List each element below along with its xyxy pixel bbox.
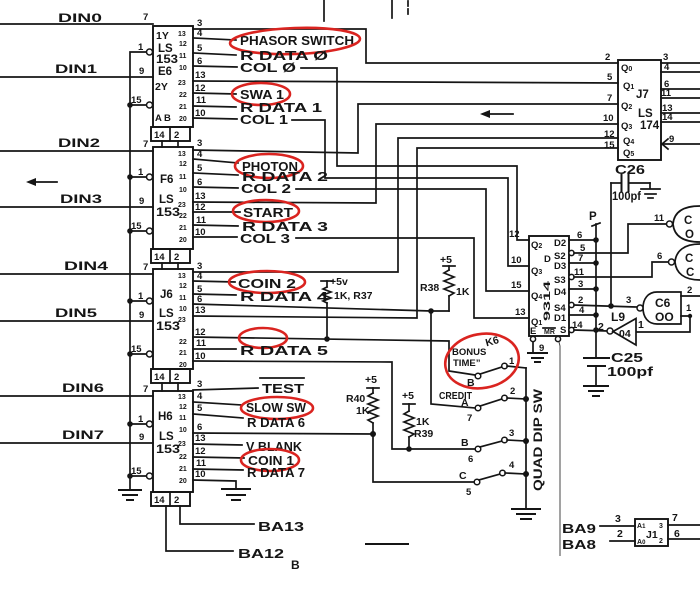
svg-text:13: 13 — [178, 31, 186, 38]
svg-text:1K: 1K — [356, 405, 370, 417]
wire BA9 to J1 pin3 — [600, 513, 635, 526]
wire DIN5 — [0, 306, 153, 321]
svg-text:9: 9 — [139, 196, 144, 207]
svg-text:A0: A0 — [637, 539, 646, 546]
wire F6 pin10 COL 3 — [193, 227, 529, 318]
svg-text:A: A — [155, 113, 162, 124]
wire BA8 to J1 pin2 — [610, 528, 635, 541]
svg-text:20: 20 — [179, 237, 187, 244]
resistor R39 1K — [402, 390, 433, 449]
svg-text:7: 7 — [607, 93, 612, 104]
svg-text:R40: R40 — [346, 393, 365, 405]
svg-text:1: 1 — [138, 414, 144, 425]
wire J6 pin6 to R38 junction — [193, 294, 449, 311]
svg-text:1: 1 — [138, 167, 144, 178]
svg-text:BA9: BA9 — [562, 522, 596, 536]
svg-text:20: 20 — [179, 362, 187, 369]
wire DIN2 — [0, 136, 153, 151]
svg-text:3: 3 — [659, 523, 663, 530]
svg-text:15: 15 — [131, 344, 142, 355]
wire 9314 pin5 S2 to nand pin11 — [569, 224, 666, 256]
svg-text:C6: C6 — [655, 296, 671, 310]
wire J7 pin14 — [661, 121, 700, 123]
svg-text:12: 12 — [179, 404, 187, 411]
svg-text:11: 11 — [179, 295, 187, 302]
svg-text:F6: F6 — [160, 174, 173, 186]
svg-text:R DATA 5: R DATA 5 — [240, 344, 328, 358]
wire strobe rail — [130, 52, 147, 489]
wire 9314 pin4 D1 — [569, 314, 596, 316]
wire E6 pin13 to J7 pin5 — [193, 70, 618, 83]
svg-text:14: 14 — [154, 252, 165, 263]
ground (left rail) — [119, 490, 141, 500]
ground (C25) — [584, 386, 608, 396]
svg-text:3: 3 — [509, 428, 514, 439]
svg-text:B: B — [164, 113, 171, 124]
svg-text:TIME”: TIME” — [453, 358, 481, 369]
wire 9314 pin6 D2 — [569, 239, 596, 241]
svg-text:13: 13 — [178, 394, 186, 401]
svg-text:21: 21 — [179, 466, 187, 473]
wire J6 pin4 COIN 2 — [193, 271, 296, 291]
svg-text:S: S — [560, 325, 566, 336]
ground (9314) — [528, 353, 547, 362]
svg-text:23: 23 — [178, 202, 186, 209]
svg-text:B: B — [291, 558, 300, 572]
pin tab E6 (14,2) — [151, 127, 190, 147]
resistor R37 1K — [321, 276, 373, 339]
svg-text:BA8: BA8 — [562, 538, 596, 552]
svg-text:SLOW SW: SLOW SW — [246, 401, 306, 415]
svg-text:9: 9 — [139, 432, 144, 443]
svg-text:D3: D3 — [554, 261, 566, 272]
wire C6 pin1 from L9 — [637, 303, 692, 332]
svg-text:DIN6: DIN6 — [62, 381, 104, 395]
wire DIN0 — [0, 11, 153, 25]
svg-text:PHASOR SWITCH: PHASOR SWITCH — [240, 34, 354, 48]
svg-text:10: 10 — [179, 427, 187, 434]
svg-text:DIN7: DIN7 — [62, 428, 104, 442]
svg-text:LS: LS — [638, 108, 653, 120]
nand gate (pin 11) top right — [654, 206, 700, 242]
svg-text:C: C — [684, 215, 692, 227]
wire E6 pin12 SWA 1 — [193, 83, 284, 102]
wire J7 pin4 — [661, 71, 700, 73]
wire J6 pin13 to J7 pin15 — [193, 148, 618, 318]
svg-text:21: 21 — [179, 225, 187, 232]
svg-text:6: 6 — [468, 454, 473, 465]
wire 9314 pin11 S3 to nand pin6 — [569, 262, 668, 280]
annotation ellipse COIN 2 — [229, 271, 305, 293]
svg-text:12: 12 — [604, 129, 615, 140]
svg-text:21: 21 — [179, 104, 187, 111]
dip switch C — [459, 460, 526, 498]
svg-text:2: 2 — [659, 538, 663, 545]
svg-text:100pf: 100pf — [607, 365, 654, 379]
svg-text:22: 22 — [179, 454, 187, 461]
svg-text:15: 15 — [131, 466, 142, 477]
svg-text:1: 1 — [138, 291, 144, 302]
svg-text:+5: +5 — [365, 374, 377, 386]
svg-text:2: 2 — [174, 252, 179, 263]
svg-text:OO: OO — [655, 310, 674, 324]
svg-text:MR: MR — [544, 329, 555, 336]
svg-text:R38: R38 — [420, 282, 439, 294]
svg-text:10: 10 — [195, 469, 206, 480]
wire J7 pin6 — [661, 88, 700, 90]
annotation ellipse COIN 1 — [241, 449, 299, 471]
svg-text:11: 11 — [196, 458, 207, 469]
wire J1 out pin6 — [668, 528, 700, 540]
svg-text:23: 23 — [178, 317, 186, 324]
svg-text:COL Ø: COL Ø — [240, 61, 296, 75]
inverter L9 7404 — [598, 310, 644, 345]
svg-text:3: 3 — [615, 513, 621, 525]
svg-text:R DATA 4: R DATA 4 — [240, 290, 328, 304]
wire H6 pin3 TEST — [193, 378, 304, 396]
svg-text:2: 2 — [174, 372, 179, 383]
pin tab J6 (14,2) — [151, 369, 190, 391]
svg-text:1: 1 — [686, 303, 692, 314]
ground (dip bus) — [512, 509, 540, 519]
wire C6 pin2 — [681, 285, 700, 296]
svg-text:100pf: 100pf — [612, 191, 641, 203]
svg-text:9: 9 — [139, 66, 144, 77]
svg-text:BONUS: BONUS — [452, 347, 486, 358]
svg-text:E: E — [530, 326, 536, 337]
svg-text:C: C — [459, 470, 467, 482]
wire dip switch bus — [523, 368, 529, 508]
svg-text:DIN5: DIN5 — [55, 306, 97, 320]
switch K6 bonus time — [452, 334, 526, 389]
svg-text:14: 14 — [154, 130, 165, 141]
wire H6 pin6 to R40 junction and dip switch C — [193, 422, 474, 482]
wire F6 pin13 to J7 pin10 — [193, 124, 618, 203]
svg-text:1K: 1K — [456, 286, 470, 298]
wire DIN6 — [0, 381, 153, 396]
annotation ellipse SLOW SW — [241, 397, 313, 419]
ground (C26) — [641, 189, 660, 198]
svg-text:2: 2 — [605, 52, 610, 63]
svg-text:153: 153 — [156, 207, 180, 219]
svg-text:7: 7 — [143, 384, 148, 395]
svg-text:14: 14 — [154, 372, 165, 383]
svg-text:23: 23 — [178, 441, 186, 448]
net P pull-up rail — [589, 211, 600, 358]
wire H6 pin12 COIN 1 — [193, 446, 294, 468]
svg-text:+5: +5 — [440, 254, 452, 266]
svg-text:15: 15 — [131, 95, 142, 106]
svg-text:R DATA 7: R DATA 7 — [247, 466, 305, 480]
dip switch A — [461, 386, 526, 424]
wire J6 pin11 R DATA 5 — [193, 338, 328, 358]
9314 bottom pin E to ground — [530, 336, 544, 354]
svg-text:A1: A1 — [637, 523, 646, 530]
svg-text:D: D — [544, 254, 551, 265]
wire F6 pin12 START — [193, 202, 293, 220]
svg-text:12: 12 — [509, 229, 520, 240]
svg-text:DIN3: DIN3 — [60, 192, 102, 206]
wire F6 pin6 COL 2 — [193, 177, 529, 291]
svg-text:J7: J7 — [636, 89, 649, 101]
9314 bottom pin S wire down — [555, 336, 560, 556]
svg-text:12: 12 — [179, 161, 187, 168]
svg-text:11: 11 — [196, 338, 207, 349]
svg-text:2: 2 — [510, 386, 515, 397]
svg-text:23: 23 — [178, 80, 186, 87]
svg-text:15: 15 — [604, 140, 615, 151]
svg-text:13: 13 — [178, 273, 186, 280]
svg-text:L9: L9 — [611, 310, 625, 324]
IC J1 — [635, 519, 668, 546]
tick mark top 1 — [323, 0, 325, 21]
svg-text:1Y: 1Y — [156, 30, 169, 42]
wire J7 pin13 — [661, 112, 700, 114]
wire J6 pin10 to dip switch B — [193, 351, 475, 449]
svg-text:3: 3 — [626, 295, 631, 306]
svg-text:1K: 1K — [416, 416, 430, 428]
wire F6 pin11 R DATA 3 — [193, 215, 328, 234]
wire E6 pin3 to J7 pin2 — [193, 18, 618, 63]
wire E6 pin5 R DATA 0 — [193, 43, 328, 63]
svg-text:LS: LS — [159, 431, 174, 443]
svg-text:2: 2 — [687, 285, 692, 296]
IC 9314 latch — [509, 229, 586, 337]
tick mark top 3 — [407, 1, 409, 16]
svg-text:22: 22 — [179, 339, 187, 346]
svg-text:04: 04 — [619, 328, 631, 340]
svg-text:10: 10 — [179, 65, 187, 72]
svg-text:5: 5 — [197, 403, 203, 414]
svg-text:C: C — [685, 253, 693, 265]
wire E6 pin10 COL 1 — [193, 108, 529, 266]
svg-text:COIN 2: COIN 2 — [238, 277, 296, 291]
wire H6 pin11 R DATA 7 — [193, 458, 305, 480]
wire E6 pin4 PHASOR SWITCH — [193, 28, 354, 48]
svg-text:TEST: TEST — [262, 382, 304, 396]
wire J6 pin3 to J7 pin12 — [193, 138, 618, 272]
wire DIN1 — [0, 62, 153, 77]
svg-text:QUAD DIP SW: QUAD DIP SW — [531, 388, 545, 491]
junction dots on strobe rail — [127, 102, 133, 479]
nand gate C6 7400 — [626, 292, 681, 324]
wire 9314 pin14 S1 to inverter L9 — [569, 327, 607, 332]
svg-text:13: 13 — [178, 151, 186, 158]
wire H6 pin4 SLOW SW — [193, 391, 306, 415]
svg-text:4: 4 — [197, 28, 203, 39]
svg-text:5: 5 — [607, 72, 613, 83]
svg-text:1: 1 — [138, 42, 144, 53]
svg-text:H6: H6 — [158, 411, 173, 423]
svg-text:13: 13 — [515, 307, 526, 318]
wire R38 junction to dip switch A — [431, 311, 475, 408]
svg-text:14: 14 — [154, 495, 165, 506]
svg-text:9314: 9314 — [542, 280, 553, 321]
arrow middle — [480, 110, 513, 118]
wire J6 pin12 to bonus-time switch — [193, 327, 475, 375]
wire J1 out pin7 — [668, 512, 700, 525]
stray mark (dashed bar) — [366, 543, 408, 545]
mux U-E6 LS153 — [131, 12, 193, 127]
wire J7 pin3 — [661, 62, 700, 64]
svg-text:+5: +5 — [402, 390, 414, 402]
svg-text:1: 1 — [638, 319, 644, 331]
svg-text:7: 7 — [467, 413, 472, 424]
wire J6 pin5 R DATA 4 — [193, 284, 328, 304]
mux U-H6 LS153 — [131, 384, 193, 492]
annotation ellipse PHASOR SWITCH — [230, 26, 361, 57]
svg-text:153: 153 — [156, 321, 180, 333]
svg-text:11: 11 — [196, 95, 207, 106]
svg-text:15: 15 — [131, 221, 142, 232]
svg-text:5: 5 — [466, 487, 472, 498]
wire H6 pin5 R DATA 6 — [193, 403, 305, 430]
annotation ellipse (blank) on J6 pin12 — [239, 328, 287, 348]
wire DIN7 — [0, 428, 153, 443]
IC J7 LS174 — [603, 52, 674, 160]
svg-text:10: 10 — [179, 306, 187, 313]
svg-text:P: P — [589, 211, 597, 223]
junction dot R38 — [428, 308, 434, 314]
svg-text:5: 5 — [197, 43, 203, 54]
wire H6 pin2 to BA13 — [180, 506, 304, 534]
svg-text:A: A — [461, 397, 469, 409]
svg-text:2: 2 — [617, 528, 623, 540]
svg-text:153: 153 — [156, 444, 180, 456]
svg-text:DIN0: DIN0 — [58, 11, 103, 25]
svg-text:7: 7 — [143, 12, 148, 23]
svg-text:COL 2: COL 2 — [241, 182, 291, 196]
svg-text:D2: D2 — [554, 238, 566, 249]
mux U-J6 LS153 — [131, 262, 193, 369]
svg-text:4: 4 — [509, 460, 515, 471]
svg-text:COL 1: COL 1 — [240, 113, 288, 127]
svg-text:+5v: +5v — [330, 276, 348, 288]
resistor R40 1K — [346, 374, 379, 434]
svg-text:1: 1 — [509, 356, 515, 367]
wire H6 pin13 V BLANK — [193, 433, 302, 454]
mux U-F6 LS153 — [131, 139, 193, 249]
junction dot R37 — [324, 336, 330, 342]
svg-text:13: 13 — [195, 433, 206, 444]
svg-text:7: 7 — [672, 512, 678, 524]
svg-text:3: 3 — [197, 379, 202, 390]
svg-text:7: 7 — [143, 139, 148, 150]
svg-text:DIN2: DIN2 — [58, 136, 100, 150]
junction dot R39 — [406, 446, 412, 452]
svg-text:10: 10 — [603, 113, 614, 124]
svg-text:2: 2 — [174, 130, 179, 141]
svg-text:D4: D4 — [554, 287, 567, 298]
svg-text:13: 13 — [195, 305, 206, 316]
svg-text:LS: LS — [159, 194, 174, 206]
svg-text:22: 22 — [179, 92, 187, 99]
svg-text:5: 5 — [197, 163, 203, 174]
svg-text:7: 7 — [143, 262, 148, 273]
svg-text:LS: LS — [159, 308, 174, 320]
wire DIN3 — [0, 192, 153, 207]
svg-text:11: 11 — [179, 53, 187, 60]
annotation ellipse BONUS TIME — [441, 328, 523, 394]
wire F6 pin5 R DATA 2 — [193, 163, 328, 184]
wire E6 pin11 R DATA 1 — [193, 95, 322, 115]
svg-text:11: 11 — [654, 213, 665, 224]
svg-text:15: 15 — [511, 280, 522, 291]
svg-text:20: 20 — [179, 478, 187, 485]
arrow left — [26, 178, 57, 186]
svg-text:4: 4 — [197, 391, 203, 402]
svg-text:3: 3 — [197, 138, 202, 149]
dip switch B — [461, 428, 526, 465]
wire J7 pin11 — [661, 97, 700, 99]
annotation ellipse PHOTON — [235, 154, 303, 178]
wire H6 pin14 to BA12 — [166, 506, 284, 561]
wire 9314 pin2 S4 to gate C6 — [569, 302, 637, 308]
svg-text:B: B — [461, 437, 469, 449]
svg-text:6: 6 — [197, 422, 202, 433]
capacitor C26 100pf — [611, 163, 650, 203]
svg-text:11: 11 — [179, 174, 187, 181]
svg-text:C: C — [686, 267, 694, 279]
wire DIN4 — [0, 259, 153, 274]
svg-text:12: 12 — [195, 446, 206, 457]
svg-text:21: 21 — [179, 350, 187, 357]
svg-text:9: 9 — [139, 310, 144, 321]
svg-text:13: 13 — [195, 70, 206, 81]
svg-text:COL 3: COL 3 — [240, 232, 290, 246]
svg-text:J1: J1 — [646, 529, 658, 541]
svg-text:10: 10 — [511, 255, 522, 266]
svg-text:SWA 1: SWA 1 — [240, 88, 284, 102]
tick mark top 2 — [391, 0, 393, 18]
svg-text:13: 13 — [195, 191, 206, 202]
svg-text:DIN1: DIN1 — [55, 62, 97, 76]
pin tab H6 (14,2) — [151, 492, 190, 506]
wire F6 pin4 PHOTON — [193, 149, 298, 174]
junction dot R40 — [370, 431, 376, 437]
pin tab F6 (14,2) — [151, 249, 190, 269]
wire 9314 pin7 D3 — [569, 262, 596, 264]
svg-text:1K, R37: 1K, R37 — [334, 290, 373, 302]
svg-text:20: 20 — [179, 116, 187, 123]
annotation ellipse SWA1 — [232, 83, 290, 105]
wire F6 pin3 to J7 pin7 — [193, 104, 618, 153]
resistor R38 1K — [420, 254, 470, 311]
svg-text:11: 11 — [179, 415, 187, 422]
svg-text:R DATA 6: R DATA 6 — [247, 416, 305, 430]
svg-text:BA12: BA12 — [238, 547, 284, 561]
svg-text:2Y: 2Y — [155, 81, 168, 93]
svg-text:12: 12 — [179, 41, 187, 48]
svg-text:6: 6 — [657, 251, 662, 262]
svg-text:J6: J6 — [160, 289, 173, 301]
svg-text:174: 174 — [640, 120, 660, 132]
svg-text:4: 4 — [197, 149, 203, 160]
ground (H6 pin10) — [222, 489, 250, 500]
svg-text:O: O — [685, 229, 694, 241]
svg-text:C26: C26 — [615, 163, 645, 177]
svg-text:DIN4: DIN4 — [64, 259, 109, 273]
nand gate (pin 6) — [657, 244, 700, 280]
wire 9314 pin3 D4 — [569, 288, 596, 290]
wire J7 pin9 clock — [662, 139, 700, 149]
capacitor C25 100pf — [584, 351, 654, 385]
svg-text:BA13: BA13 — [258, 520, 304, 534]
svg-text:2: 2 — [174, 495, 179, 506]
svg-text:153: 153 — [156, 54, 178, 66]
wire C26 to C6 output node — [610, 183, 612, 306]
svg-text:E6: E6 — [158, 66, 172, 78]
